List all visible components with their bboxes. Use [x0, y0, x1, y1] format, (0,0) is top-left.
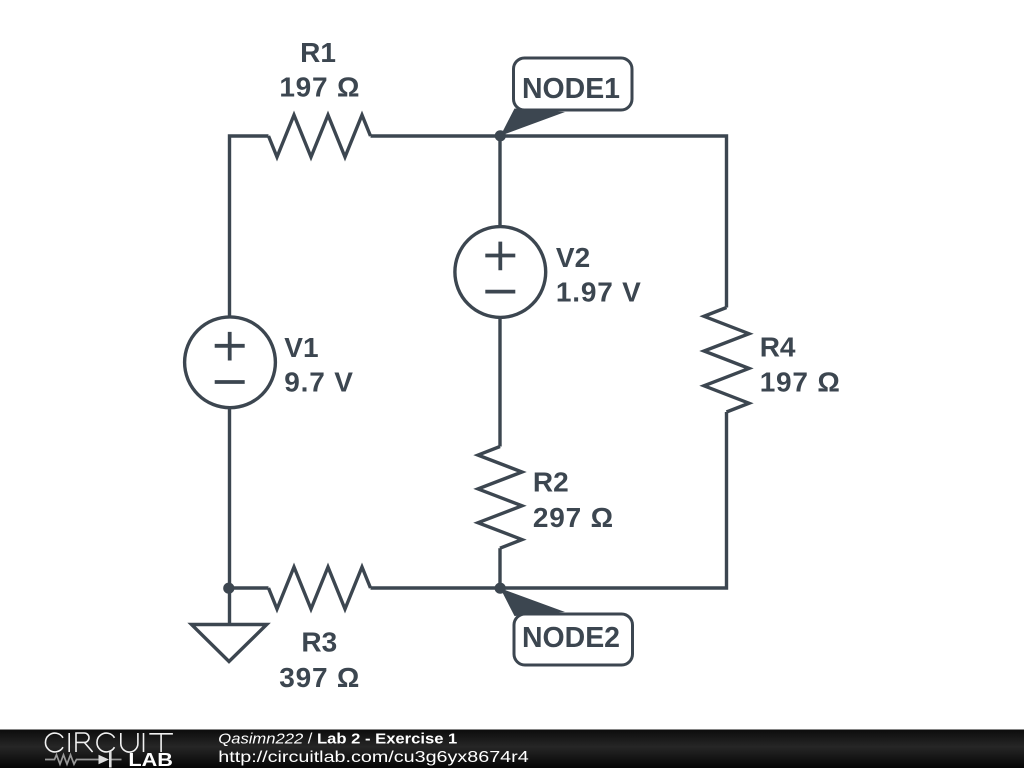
- svg-text:197 Ω: 197 Ω: [279, 72, 360, 103]
- svg-text:http://circuitlab.com/cu3g6yx8: http://circuitlab.com/cu3g6yx8674r4: [218, 749, 529, 766]
- svg-text:V1: V1: [284, 332, 318, 363]
- wire V1 bottom to ground node: [228, 409, 231, 589]
- wire R3 to NODE2: [371, 586, 501, 589]
- voltage source V2: [455, 227, 546, 318]
- svg-text:397 Ω: 397 Ω: [279, 662, 360, 693]
- node label NODE1: [514, 58, 633, 110]
- svg-text:LAB: LAB: [128, 750, 173, 768]
- svg-text:297 Ω: 297 Ω: [533, 502, 614, 533]
- footer bar: [0, 730, 1024, 768]
- logo resistor-diode glyph: [45, 752, 122, 768]
- V2 minus sign: [485, 290, 515, 294]
- CIRCUIT logo wordmark: [45, 733, 172, 752]
- resistor R2: [478, 447, 522, 549]
- wire top-left corner to V1 top: [230, 136, 269, 317]
- NODE2 pointer wedge: [500, 588, 565, 616]
- svg-text:9.7 V: 9.7 V: [284, 367, 353, 398]
- svg-text:R4: R4: [760, 332, 796, 363]
- svg-text:R1: R1: [300, 37, 336, 68]
- node junction NODE2: [495, 583, 506, 594]
- svg-text:Qasimn222 / Lab 2 - Exercise 1: Qasimn222 / Lab 2 - Exercise 1: [218, 730, 457, 747]
- resistor R4: [704, 308, 749, 413]
- resistor R1: [269, 115, 371, 157]
- ground: [192, 625, 267, 662]
- NODE1 pointer wedge: [501, 109, 566, 136]
- wire ground node to R3: [230, 586, 269, 589]
- wire R2 bottom to NODE2: [498, 548, 501, 588]
- voltage source V1: [185, 317, 276, 408]
- svg-text:V2: V2: [556, 242, 590, 273]
- wire R4 bottom to NODE2: [500, 412, 727, 588]
- V2 plus sign: [485, 242, 515, 271]
- svg-text:1.97 V: 1.97 V: [556, 277, 642, 308]
- node junction NODE1: [495, 130, 506, 141]
- resistor R3: [269, 567, 371, 609]
- svg-text:NODE2: NODE2: [522, 622, 620, 654]
- node label NODE2: [514, 614, 633, 665]
- wire NODE1 to V2 top: [498, 136, 501, 227]
- svg-text:R3: R3: [301, 627, 337, 658]
- V1 minus sign: [215, 380, 245, 384]
- V1 plus sign: [215, 332, 245, 361]
- wire V2 bottom to R2 top: [498, 318, 501, 447]
- svg-text:NODE1: NODE1: [522, 73, 620, 105]
- wire ground stem: [228, 588, 231, 623]
- svg-text:R2: R2: [533, 467, 569, 498]
- wire top from R1 through NODE1 to right rail down to R4: [371, 136, 727, 308]
- node junction ground: [223, 583, 234, 594]
- svg-text:197 Ω: 197 Ω: [760, 367, 841, 398]
